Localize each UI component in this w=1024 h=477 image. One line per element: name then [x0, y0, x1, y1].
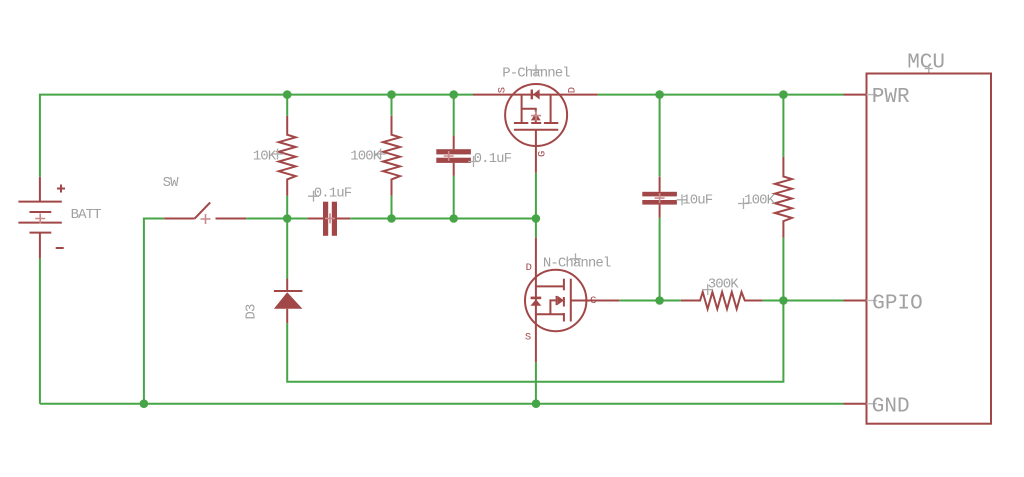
Q2 channel segment top: [563, 279, 565, 291]
Q1 gate bar: [514, 129, 558, 131]
junction dot bottom rail N-FET: [532, 399, 541, 408]
svg-text:100K: 100K: [350, 149, 382, 165]
Q2 body circle: [525, 270, 586, 331]
junction dot top rail C1: [449, 90, 458, 99]
svg-text:G: G: [590, 295, 596, 307]
wire 10uF bottom to GPIO line: [659, 218, 661, 301]
resistor 10K: [279, 116, 296, 196]
junction dot top rail 100K: [387, 90, 396, 99]
battery origin cross: [35, 214, 45, 224]
10uF origin cross: [677, 194, 688, 205]
Q1 left source vertical: [521, 95, 523, 123]
junction dot GPIO 10uF: [655, 296, 664, 305]
op N-channel MOSFET Q2: [525, 238, 619, 363]
MCU pin lead PWR: [844, 94, 867, 96]
Q2 gate lead: [571, 300, 620, 302]
MCU pin lead GPIO: [844, 300, 867, 302]
wire mid rail segment A: [246, 218, 307, 220]
Q1 gate lead: [535, 130, 537, 173]
junction dot GPIO 100K right: [779, 296, 788, 305]
Q1 bulk arrow: [531, 113, 541, 121]
wire top rail right segment: [598, 94, 844, 96]
wire mid rail to N-FET drain: [535, 219, 537, 238]
junction dot mid rail 10K: [283, 214, 292, 223]
MCU pin stub GND: [867, 403, 878, 405]
svg-text:GND: GND: [872, 395, 910, 418]
svg-text:0.1uF: 0.1uF: [474, 151, 512, 167]
junction dot mid rail 100K: [387, 214, 396, 223]
svg-text:0.1uF: 0.1uF: [314, 185, 352, 201]
wire 100K left top stub: [391, 95, 393, 116]
svg-text:10K: 10K: [253, 149, 277, 165]
resistor 100K right: [775, 157, 792, 238]
svg-text:MCU: MCU: [907, 52, 945, 75]
MCU pin stub PWR: [867, 94, 878, 96]
wire 10K top stub: [286, 95, 288, 116]
junction dot bottom rail switch: [140, 399, 149, 408]
capacitor 10uF: [642, 177, 677, 218]
Q1 body diode triangle: [533, 89, 540, 99]
series cap origin cross: [308, 191, 319, 202]
svg-text:100K: 100K: [744, 192, 776, 208]
wire battery bottom drop: [39, 259, 41, 404]
wire N-FET source to bottom rail: [535, 362, 537, 404]
svg-text:D: D: [526, 262, 532, 274]
Q2 bulk arrow bar: [556, 296, 558, 305]
wire switch left corner: [144, 219, 164, 404]
Q1 origin cross: [531, 111, 541, 121]
100K right origin cross: [738, 198, 749, 209]
10K origin cross: [272, 149, 283, 160]
op P-channel MOSFET Q1: [473, 84, 598, 173]
svg-text:D3: D3: [243, 304, 259, 320]
10uF center cross: [655, 193, 665, 203]
capacitor 0.1uF shunt C1: [436, 136, 471, 176]
wire 100K right bottom stub: [782, 238, 784, 301]
MCU pin stub GPIO: [867, 300, 878, 302]
wire GPIO line right: [762, 300, 843, 302]
Q1 body circle: [505, 84, 567, 146]
svg-text:SW: SW: [163, 175, 180, 191]
wire 100K left bottom stub: [391, 196, 393, 219]
svg-text:D: D: [567, 87, 579, 93]
300K origin cross: [702, 284, 713, 295]
wire D3 top stub: [286, 219, 288, 279]
resistor 100K left: [383, 116, 400, 196]
junction dot top rail 10K: [283, 90, 292, 99]
Q1 channel segment middle: [531, 122, 541, 124]
svg-text:300K: 300K: [708, 276, 740, 292]
svg-text:10uF: 10uF: [682, 193, 713, 209]
Q1 bulk step: [522, 109, 536, 113]
wire bottom rail GND: [40, 403, 844, 405]
MCU pin lead GND: [844, 403, 867, 405]
svg-text:S: S: [497, 87, 509, 93]
C1 origin cross: [468, 156, 479, 167]
switch origin cross: [201, 214, 211, 224]
Q2 bulk step: [550, 300, 556, 314]
wire N-FET gate to 300K: [619, 300, 681, 302]
svg-text:BATT: BATT: [71, 207, 102, 223]
junction dot top rail 100K right: [779, 90, 788, 99]
Q2 bulk arrow triangle: [558, 296, 564, 305]
resistor 300K: [681, 292, 763, 309]
C1 center cross: [444, 151, 454, 161]
switch SW: [164, 202, 246, 218]
Q1 source-drain top line: [473, 94, 598, 96]
Q2 channel segment bottom: [563, 313, 565, 322]
capacitor 0.1uF series: [308, 202, 351, 236]
Q1 body diode bar: [531, 90, 533, 100]
junction dot mid rail gate node: [532, 214, 541, 223]
wire 10K bottom stub: [286, 196, 288, 219]
Q2 bottom source horizontal: [536, 313, 564, 315]
svg-text:N-Channel: N-Channel: [543, 256, 611, 272]
junction dot mid rail C1: [449, 214, 458, 223]
100K left origin cross: [375, 149, 386, 160]
wire cap C1 top stub: [453, 95, 455, 136]
MCU origin cross: [925, 65, 933, 73]
wire P-FET gate to mid rail: [535, 173, 537, 219]
Q1 bulk arrow stem: [535, 120, 537, 123]
Q2 top drain horizontal: [536, 285, 564, 287]
P-Channel origin cross: [531, 65, 542, 76]
Q1 channel segment left: [514, 122, 528, 124]
Q2 body diode bar: [531, 297, 542, 300]
N-Channel origin cross: [570, 253, 581, 264]
wire 10uF top stub: [659, 95, 661, 177]
Q2 drain-source vertical line: [535, 238, 537, 363]
wire 100K right top stub: [782, 95, 784, 157]
series cap center cross: [325, 213, 335, 223]
svg-text:PWR: PWR: [872, 86, 910, 109]
svg-text:S: S: [525, 331, 531, 343]
Q2 channel segment middle: [563, 297, 565, 307]
wire mid rail segment B: [350, 218, 536, 220]
wire D3 bottom to GPIO riser: [287, 301, 783, 382]
wire top rail left segment: [40, 95, 473, 177]
Q1 right drain vertical: [550, 95, 552, 123]
wire cap C1 bottom stub: [453, 176, 455, 219]
svg-text:GPIO: GPIO: [872, 292, 922, 315]
Q1 channel segment right: [544, 122, 558, 124]
diode D3: [274, 279, 303, 324]
svg-text:G: G: [536, 151, 548, 157]
Q2 gate bar: [570, 279, 572, 322]
Q2 body diode triangle: [530, 299, 541, 305]
junction dot top rail 10uF: [655, 90, 664, 99]
battery BATT: [18, 177, 65, 259]
MCU box U1: [867, 74, 992, 424]
